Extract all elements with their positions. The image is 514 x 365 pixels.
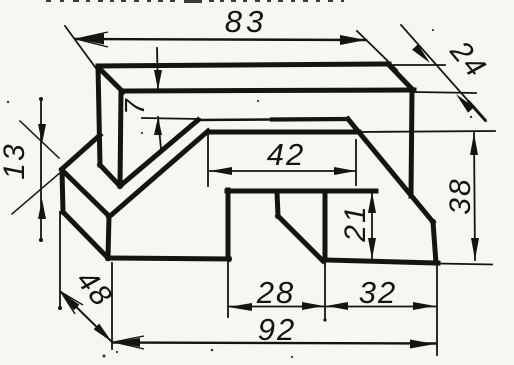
arrow 48 pointing SE [94, 324, 112, 342]
ext 48 back vertical [59, 212, 61, 308]
wall top-front edge [122, 90, 414, 91]
svg-text:83: 83 [225, 4, 267, 39]
svg-text:21: 21 [339, 204, 372, 242]
dim line 38 [474, 133, 475, 260]
plateau back edge left part [198, 118, 272, 121]
plateau front edge [208, 130, 359, 135]
dim line 28 [228, 306, 325, 308]
dim line 83 [76, 39, 366, 40]
arrow 38 down [471, 238, 479, 260]
arrow 83 left [76, 34, 104, 45]
arrow 32 right [413, 302, 435, 310]
left slope lower edge [109, 131, 208, 217]
arrow 32 left [326, 302, 348, 310]
arrow 7 down [154, 70, 162, 90]
arrow 42 right [334, 167, 356, 175]
svg-text:92: 92 [258, 312, 296, 347]
dim line 42 [210, 170, 356, 172]
ext 83 left diagonal [65, 26, 98, 71]
wall top-left-end edge [98, 67, 123, 92]
left slope upper edge [120, 120, 198, 186]
dim line 48 [61, 292, 112, 342]
arrow 92 left [114, 338, 140, 347]
arrow 42 left [210, 167, 232, 175]
wall right edge [411, 90, 412, 196]
arrow 13 down [38, 124, 46, 144]
arrow 48 pointing NW [61, 292, 79, 310]
dot 13 top [39, 97, 43, 101]
wall front-left edge [120, 92, 121, 186]
arrow 7 up [154, 117, 162, 135]
dim line 32 [325, 306, 436, 308]
svg-text:7: 7 [119, 98, 150, 115]
arrow 28 left [228, 303, 252, 311]
right slope diagonal [348, 119, 433, 222]
base bottom edge right part [325, 260, 438, 263]
base right vertical edge [433, 222, 436, 263]
ext 83 right diagonal [357, 31, 397, 70]
V-prism top-back edge [62, 135, 100, 169]
base left vertical edge [62, 170, 63, 212]
notch interior vertical edge [277, 192, 278, 216]
notch top edge [227, 189, 376, 194]
barbs 83 left [76, 32, 108, 47]
ext 24 bottom horizontal [414, 92, 476, 93]
base front-left vertical edge [108, 216, 109, 258]
dim line 7 upper shaft [157, 48, 158, 90]
barbs 92 left [114, 336, 144, 349]
ext 13 upper diagonal [20, 121, 59, 158]
notch right edge [323, 191, 328, 260]
arrow 38 up [470, 133, 478, 155]
ext 42 left vertical [207, 134, 209, 186]
arrow 92 right [410, 340, 435, 349]
wall left-end left edge [98, 66, 100, 165]
svg-text:13: 13 [0, 142, 31, 179]
ext 13 lower diagonal [12, 171, 62, 214]
ext 83/24 top horizontal [389, 64, 445, 66]
dot 48 ext bottom [58, 306, 62, 310]
arrow 28 right [302, 302, 324, 310]
svg-text:38: 38 [444, 177, 477, 214]
arrow 24 pointing SE [412, 44, 430, 63]
arrow barbs [61, 32, 144, 349]
ext 28/32 middle vertical [324, 263, 326, 320]
ext 92 left vertical [111, 263, 113, 349]
svg-text:28: 28 [256, 275, 295, 310]
dot mid ext bottom [323, 318, 326, 321]
arrow 83 right [340, 35, 366, 45]
wall top-back edge [98, 64, 389, 66]
notch interior diagonal edge [278, 216, 323, 261]
dim line 13 [40, 99, 42, 240]
ext 38 bottom horizontal [438, 264, 492, 265]
wall left-end bottom edge [100, 165, 120, 186]
dim line 24 [401, 25, 486, 121]
base front-top-left edge [62, 170, 109, 216]
dim line 92 [113, 343, 436, 344]
ext 28 left vertical [227, 261, 229, 317]
arrow 21 up [368, 192, 376, 213]
plateau back edge right part [272, 117, 348, 122]
arrow 21 down [368, 238, 376, 259]
scan noise: cut-off text row on top [46, 0, 344, 3]
barbs 48 NW [61, 292, 83, 314]
ext 7 horizontal [142, 118, 200, 119]
dim line 7 lower shaft [158, 117, 161, 149]
svg-text:32: 32 [359, 275, 397, 310]
svg-text:42: 42 [267, 137, 305, 172]
wall top-right-end edge [388, 64, 413, 90]
dot 13 bottom [39, 238, 43, 242]
dim line 21 [371, 192, 373, 259]
notch left edge [226, 190, 231, 259]
ext 38 top horizontal [357, 131, 495, 132]
base bottom edge left part [108, 258, 229, 259]
arrow 24 pointing NW [456, 94, 474, 113]
ext 32/92 right vertical [436, 264, 438, 355]
base bottom-left edge [63, 212, 108, 258]
ext 42 right vertical [355, 140, 357, 185]
arrow 13 up [38, 199, 46, 219]
